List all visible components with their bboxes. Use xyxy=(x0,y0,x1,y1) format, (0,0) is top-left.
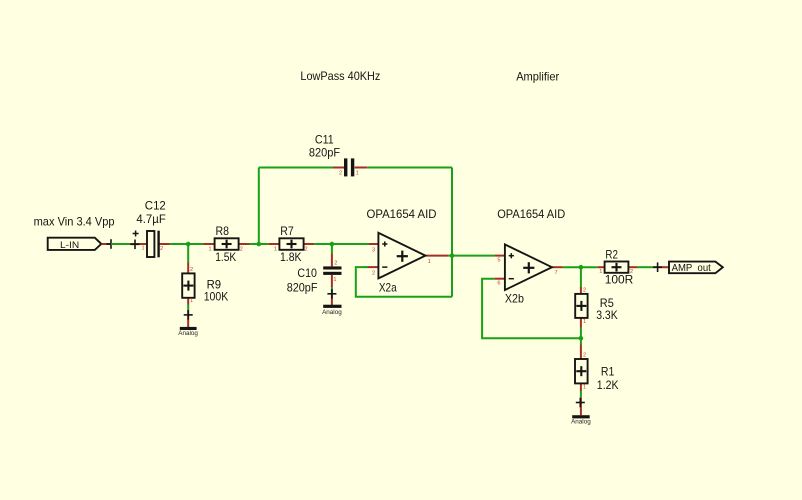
junction node C10 tap xyxy=(330,242,335,247)
junction node feedback tap xyxy=(257,242,262,247)
wire R2 to AMP_out xyxy=(638,266,653,268)
wire L-IN to C12 xyxy=(111,243,130,245)
svg-text:820pF: 820pF xyxy=(309,146,340,160)
feedback loop vertical right xyxy=(451,168,453,297)
svg-text:2: 2 xyxy=(240,246,243,252)
svg-text:1: 1 xyxy=(583,385,586,391)
wire up to top loop xyxy=(258,168,260,245)
junction node at R9 tap xyxy=(186,242,191,247)
svg-text:1: 1 xyxy=(428,259,431,265)
svg-text:1: 1 xyxy=(333,277,336,283)
svg-text:AMP_out: AMP_out xyxy=(672,263,711,274)
ground Analog under R9 xyxy=(178,310,198,337)
wire X2b out to R2 xyxy=(563,266,598,268)
svg-text:5: 5 xyxy=(497,257,500,263)
svg-text:1: 1 xyxy=(141,246,144,252)
svg-text:X2a: X2a xyxy=(379,281,397,295)
origin cross at L-IN pin xyxy=(107,239,116,249)
X2a feedback wire xyxy=(356,267,452,297)
resistor R7 1.8K xyxy=(269,224,315,264)
svg-text:R2: R2 xyxy=(605,248,618,262)
junction node X2b output xyxy=(579,265,584,270)
svg-text:2: 2 xyxy=(160,246,163,252)
svg-text:2: 2 xyxy=(372,270,375,276)
svg-text:C12: C12 xyxy=(145,199,166,213)
svg-text:max Vin 3.4 Vpp: max Vin 3.4 Vpp xyxy=(34,214,115,228)
svg-text:100K: 100K xyxy=(204,290,229,304)
top feedback loop wire left xyxy=(259,167,333,169)
svg-text:C10: C10 xyxy=(297,266,317,280)
svg-text:3: 3 xyxy=(372,247,375,253)
resistor R1 1.2K xyxy=(575,345,619,393)
svg-text:7: 7 xyxy=(554,270,557,276)
svg-text:OPA1654 AID: OPA1654 AID xyxy=(497,207,565,221)
svg-text:R1: R1 xyxy=(601,365,615,379)
svg-text:1: 1 xyxy=(356,170,359,176)
top feedback loop wire right xyxy=(367,167,452,169)
svg-text:2: 2 xyxy=(190,267,193,273)
wire down to R9 xyxy=(187,244,189,263)
svg-text:Analog: Analog xyxy=(571,418,591,425)
op-amp X2a OPA1654 xyxy=(367,207,449,294)
svg-text:3.3K: 3.3K xyxy=(596,308,618,322)
svg-text:2: 2 xyxy=(304,246,307,252)
svg-text:Analog: Analog xyxy=(322,309,342,316)
svg-text:1: 1 xyxy=(583,319,586,325)
svg-text:1: 1 xyxy=(599,269,602,275)
svg-text:LowPass 40KHz: LowPass 40KHz xyxy=(300,69,380,83)
svg-text:R7: R7 xyxy=(280,224,294,238)
resistor R8 1.5K xyxy=(204,224,250,264)
resistor R5 3.3K xyxy=(575,287,618,328)
svg-text:100R: 100R xyxy=(605,272,634,286)
connector L-IN xyxy=(48,238,111,251)
wire to C10 ground xyxy=(331,287,333,293)
connector AMP_out xyxy=(653,262,723,275)
junction node X2a output xyxy=(450,253,455,258)
svg-text:X2b: X2b xyxy=(505,291,524,305)
capacitor C12 4.7uF polarized xyxy=(130,199,170,258)
wire R7 to X2a xyxy=(314,243,369,245)
wire R5 to junction xyxy=(580,328,582,345)
svg-text:2: 2 xyxy=(334,261,337,267)
svg-text:2: 2 xyxy=(583,287,586,293)
svg-text:4.7µF: 4.7µF xyxy=(136,212,165,226)
wire C12 to R8 xyxy=(170,243,204,245)
wire to R1 ground xyxy=(580,391,582,397)
resistor R9 100K xyxy=(182,263,228,305)
svg-text:6: 6 xyxy=(497,280,500,286)
svg-text:820pF: 820pF xyxy=(287,281,318,295)
origin cross at AMP_out pin xyxy=(653,262,662,272)
resistor R2 100R xyxy=(598,248,638,287)
svg-text:OPA1654 AID: OPA1654 AID xyxy=(367,207,437,221)
svg-text:Analog: Analog xyxy=(178,330,198,337)
X2b feedback wire xyxy=(482,279,581,339)
ground Analog under C10 xyxy=(322,289,342,316)
capacitor C11 820pF xyxy=(309,132,367,176)
svg-text:2: 2 xyxy=(339,170,342,176)
svg-text:1: 1 xyxy=(208,246,211,252)
svg-text:1.2K: 1.2K xyxy=(597,378,619,392)
svg-text:2: 2 xyxy=(583,353,586,359)
capacitor C10 820pF xyxy=(287,254,342,295)
ground Analog under R1 xyxy=(571,397,591,425)
svg-text:1.8K: 1.8K xyxy=(280,250,302,264)
wire X2a out to X2b in xyxy=(448,255,494,257)
wire R8 to R7 xyxy=(250,243,269,245)
op-amp X2b OPA1654 xyxy=(495,207,566,305)
wire down to C10 xyxy=(331,244,333,254)
wire to R9 ground xyxy=(187,305,189,311)
svg-text:1: 1 xyxy=(190,298,193,304)
junction node feedback/R1 xyxy=(579,336,584,341)
svg-text:Amplifier: Amplifier xyxy=(516,69,559,83)
wire down to R5 xyxy=(580,267,582,287)
svg-text:1.5K: 1.5K xyxy=(215,250,236,264)
svg-text:1: 1 xyxy=(274,246,277,252)
svg-text:L-IN: L-IN xyxy=(60,240,79,251)
svg-text:C11: C11 xyxy=(315,132,334,146)
svg-text:R8: R8 xyxy=(216,224,230,238)
